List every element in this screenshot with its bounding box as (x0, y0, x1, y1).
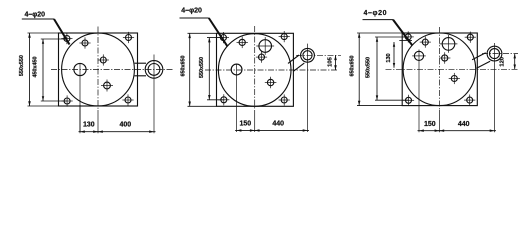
fig2 nozzle ball inner circle (303, 51, 312, 60)
svg-text:4–φ20: 4–φ20 (364, 10, 388, 17)
fig1 nozzle ball inner circle (148, 64, 160, 76)
fig2 nozzle ball outer circle (301, 48, 315, 62)
svg-text:120: 120 (500, 57, 506, 67)
svg-text:130: 130 (83, 121, 95, 128)
fig3 leader underline (363, 19, 394, 21)
fig2 dim 440 (253, 129, 309, 132)
fig2 bolt hole top-right (279, 31, 290, 42)
fig2 leader underline (180, 17, 209, 19)
fig2 extension lines for left dims (188, 32, 217, 34)
fig1 dim 450x450 (42, 39, 44, 101)
svg-text:440: 440 (458, 121, 470, 128)
fig3 bolt hole bottom-right (464, 95, 475, 106)
fig3 left hole with extension line (418, 50, 420, 133)
fig1 bolt hole bottom-right (122, 94, 133, 105)
fig2 nozzle pipe (293, 63, 304, 71)
svg-text:4–φ20: 4–φ20 (181, 7, 202, 14)
fig2 nozzle vertical centerline / extension (307, 44, 309, 132)
fig3 flange body circle (403, 33, 476, 106)
fig3 leader line through bolt TL (393, 20, 412, 46)
fig2 bolt hole bottom-right (279, 94, 290, 105)
fig2 horizontal centerline (205, 69, 337, 71)
svg-text:150: 150 (424, 121, 436, 128)
fig1 bolt hole top-right (123, 32, 134, 43)
fig3 interior dim 130 (399, 40, 412, 42)
fig2 leader line through bolt TL (209, 18, 228, 46)
svg-text:105: 105 (327, 56, 333, 66)
svg-text:130: 130 (386, 53, 392, 62)
fig3 square plate outline (402, 33, 477, 106)
svg-text:450x450: 450x450 (32, 57, 38, 78)
fig1 nozzle pipe (135, 62, 146, 64)
fig1 bottom extension lines (79, 105, 81, 132)
fig2 interior small hole (256, 52, 267, 63)
fig1 dim 130 (79, 130, 100, 133)
fig1 flange body circle (62, 33, 135, 106)
fig1 interior hole C (101, 80, 113, 92)
svg-text:440: 440 (272, 120, 284, 127)
fig1 vertical centerline (97, 27, 99, 111)
fig3 dim 150 (418, 129, 441, 132)
fig3 bolt hole top-right (465, 32, 476, 43)
fig3 dim 550x550 (376, 37, 378, 100)
fig2 vertical centerline (254, 26, 256, 110)
fig2 left hole with extension line (236, 64, 238, 133)
fig2 flange body circle (218, 34, 291, 107)
fig2 dim 550x550 (208, 38, 211, 100)
fig2 dim 650x650 (188, 33, 191, 106)
fig3 interior hole A (420, 37, 431, 48)
svg-text:150: 150 (239, 120, 251, 127)
fig1 bolt hole top-left (61, 33, 72, 44)
fig3 bolt hole bottom-left (403, 95, 414, 106)
fig1 horizontal centerline (51, 69, 173, 71)
fig2 interior hole D (265, 77, 277, 89)
fig3 horizontal centerline (386, 68, 519, 70)
fig3 extension lines for left dims (357, 32, 402, 34)
fig3 bolt hole top-left (403, 31, 414, 42)
fig1 nozzle ball outer circle (145, 61, 163, 79)
svg-text:400: 400 (119, 121, 131, 128)
fig1 extension lines for left dims (28, 32, 59, 34)
fig2 interior big hole (256, 37, 274, 55)
fig1 nozzle vertical centerline / extension (153, 55, 155, 134)
fig2 bolt hole bottom-left (218, 94, 229, 105)
fig3 nozzle horizontal centerline (482, 53, 518, 55)
fig2 nozzle horizontal centerline (296, 54, 341, 56)
fig3 nozzle pipe (477, 61, 491, 68)
svg-text:550x550: 550x550 (365, 57, 371, 78)
fig1 bolt hole bottom-left (62, 95, 73, 106)
fig1 centerline extension to dim (97, 110, 99, 133)
fig2 dim 150 (235, 129, 256, 132)
fig3 interior hole D (449, 73, 460, 84)
svg-text:550x550: 550x550 (19, 55, 25, 76)
fig3 dim 120 (514, 54, 517, 70)
fig3 interior big hole (440, 35, 458, 53)
fig3 centerline extension to dim (438, 110, 440, 132)
fig1 interior hole B (98, 54, 109, 65)
fig3 nozzle ball outer circle (487, 46, 502, 61)
mechanical drawing: three flange plate views with dimensions (0, 0, 520, 136)
fig2 dim 105 (334, 55, 337, 70)
fig1 left hole with extension line (79, 63, 81, 133)
svg-text:650x650: 650x650 (350, 56, 356, 77)
svg-text:4–φ20: 4–φ20 (25, 12, 46, 19)
fig1 dim 550x550 (28, 33, 31, 106)
fig3 dim 440 (438, 129, 496, 132)
fig2 interior hole A (237, 37, 248, 48)
fig3 vertical centerline (438, 27, 440, 110)
fig1 dim 400 (97, 130, 156, 133)
svg-text:550x550: 550x550 (199, 57, 205, 78)
fig1 interior hole A (79, 37, 90, 48)
fig1 leader line through bolt TL (54, 19, 70, 45)
fig2 bolt hole top-left (218, 32, 229, 43)
fig3 interior small hole (439, 52, 450, 63)
fig3 dim 650x650 (358, 33, 361, 106)
fig1 square plate outline (59, 33, 138, 106)
fig3 nozzle vertical centerline / extension (494, 43, 496, 132)
svg-text:650x650: 650x650 (181, 56, 187, 77)
fig3 nozzle ball inner circle (490, 49, 500, 59)
fig1 leader underline (22, 18, 54, 20)
fig2 square plate outline (217, 33, 294, 106)
fig2 centerline extension to dim (254, 110, 256, 132)
